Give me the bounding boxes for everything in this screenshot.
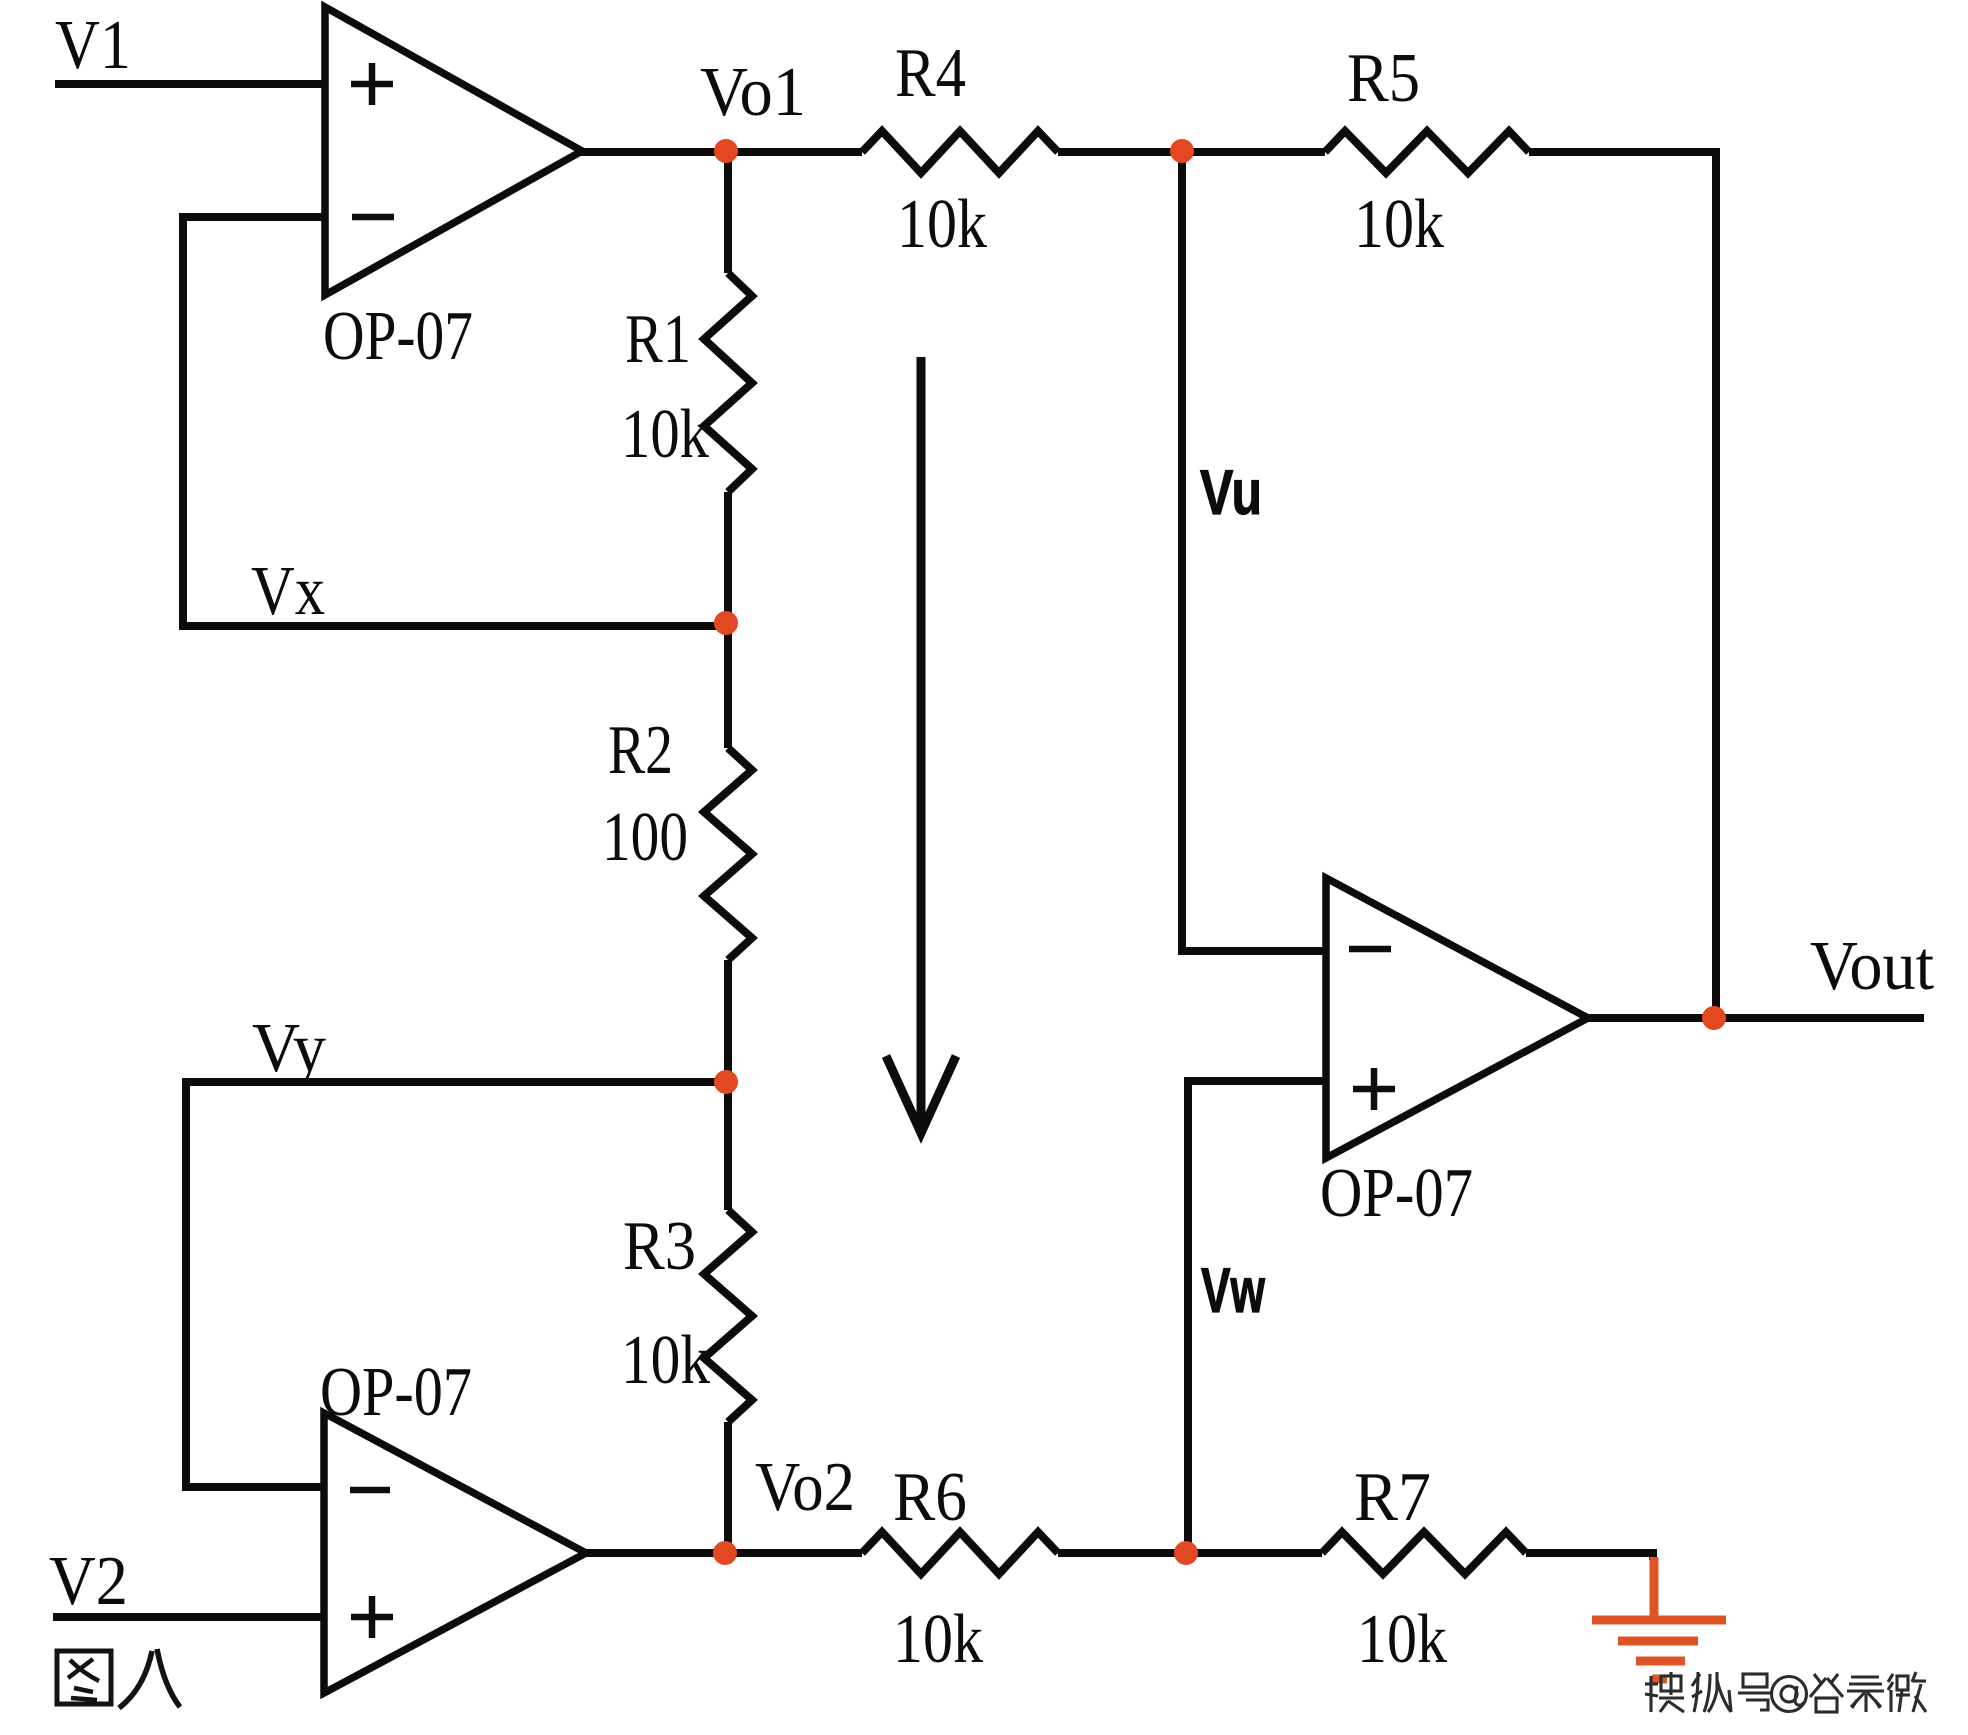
- wire Vy feedback loop (U2 - input to R2/R3 node): [186, 1082, 727, 1487]
- svg-text:Vout: Vout: [1810, 928, 1935, 1005]
- svg-text:Vx: Vx: [251, 553, 325, 630]
- wire Vu branch (Vo1/R4 node down to U3 - input): [1182, 152, 1326, 951]
- svg-text:OP-07: OP-07: [320, 1354, 472, 1431]
- svg-text:V1: V1: [55, 7, 131, 84]
- svg-text:Vy: Vy: [252, 1010, 326, 1087]
- svg-text:R3: R3: [623, 1208, 696, 1285]
- wire R6 to R7: [1058, 1549, 1322, 1557]
- wire main vertical Vo1 to R1: [724, 152, 732, 273]
- node Vx junction dot: [714, 611, 738, 635]
- resistor R4: [862, 131, 1058, 173]
- node Vout junction dot: [1702, 1006, 1726, 1030]
- wire R5 to right column down to Vout node: [1529, 152, 1716, 1018]
- svg-text:R2: R2: [608, 712, 673, 789]
- node Vo1 junction dot: [714, 139, 738, 163]
- resistor R6: [862, 1532, 1058, 1574]
- node Vo2 junction dot: [713, 1541, 737, 1565]
- wire Vx feedback loop (U1 - input to R1/R2 node): [183, 217, 727, 626]
- wire R3 to Vo2 node: [724, 1422, 732, 1553]
- current direction arrow: [886, 357, 956, 1133]
- svg-text:Vo1: Vo1: [700, 54, 806, 131]
- svg-text:Vu: Vu: [1200, 458, 1262, 528]
- op-amp U2 (bottom-left OP-07): [324, 1413, 586, 1693]
- U2 plus input mark: [351, 1596, 393, 1638]
- wire V1 input: [55, 80, 325, 88]
- svg-text:R4: R4: [895, 35, 966, 112]
- watermark 搜狐号@谷泰微: [1645, 1672, 1926, 1712]
- node Vu junction dot: [1170, 139, 1194, 163]
- U3 minus input mark: [1349, 946, 1391, 953]
- resistor R2: [704, 748, 752, 960]
- svg-text:OP-07: OP-07: [1320, 1155, 1473, 1232]
- resistor R3: [704, 1210, 752, 1422]
- node Vy junction dot: [714, 1070, 738, 1094]
- svg-text:Vw: Vw: [1201, 1256, 1266, 1326]
- node Vw junction dot: [1174, 1541, 1198, 1565]
- svg-text:V2: V2: [49, 1543, 128, 1620]
- ground (orange): [1592, 1557, 1726, 1679]
- resistor R5: [1325, 131, 1529, 173]
- U1 plus input mark: [351, 63, 393, 105]
- svg-text:10k: 10k: [621, 1322, 710, 1399]
- caption 图八 (figure eight): [57, 1649, 180, 1708]
- svg-text:R5: R5: [1347, 40, 1420, 117]
- svg-text:10k: 10k: [897, 186, 987, 263]
- wire R2 to Vy node: [724, 960, 732, 1210]
- op-amp U3 (right OP-07): [1326, 878, 1588, 1158]
- svg-text:10k: 10k: [1357, 1601, 1447, 1678]
- U3 plus input mark: [1353, 1068, 1395, 1110]
- svg-text:10k: 10k: [893, 1601, 983, 1678]
- resistor R7: [1322, 1532, 1526, 1574]
- svg-text:10k: 10k: [1354, 186, 1444, 263]
- wire U1 output row to R4: [578, 148, 862, 156]
- wire R7 to ground corner: [1526, 1553, 1653, 1560]
- svg-text:Vo2: Vo2: [755, 1449, 855, 1526]
- wire U2 output bottom row to R6: [582, 1549, 862, 1557]
- U2 minus input mark: [350, 1487, 390, 1494]
- svg-text:OP-07: OP-07: [323, 298, 473, 375]
- U1 minus input mark: [352, 214, 394, 221]
- svg-text:R7: R7: [1354, 1459, 1431, 1536]
- wire Vw branch (U3 + input down to R6/R7 node): [1188, 1081, 1326, 1553]
- wire R1 to Vx node: [724, 492, 732, 748]
- wire V2 input: [53, 1613, 324, 1621]
- op-amp U1 (top-left OP-07): [325, 7, 582, 295]
- svg-text:10k: 10k: [621, 396, 709, 473]
- wire U3 output Vout row: [1584, 1014, 1924, 1022]
- wire R4 to R5: [1058, 148, 1325, 156]
- resistor R1: [704, 273, 752, 492]
- svg-text:R1: R1: [625, 301, 691, 378]
- svg-text:100: 100: [602, 799, 688, 876]
- svg-text:R6: R6: [893, 1459, 967, 1536]
